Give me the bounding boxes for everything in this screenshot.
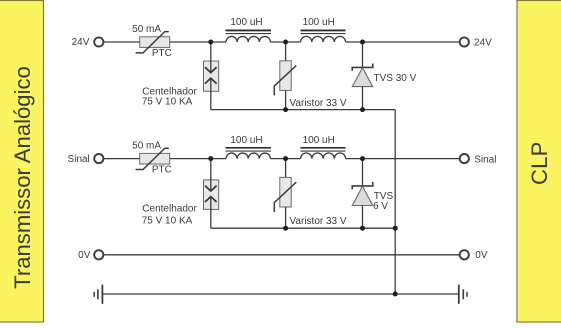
gas arrester GDT2 up arrow (205, 197, 217, 202)
gas arrester (centelhador) GDT2 body (204, 180, 219, 210)
inductor L3 core lines (226, 148, 272, 151)
wire: varistor RV1 down to rail 1 (285, 90, 287, 109)
node: rail 2 to bus junction (393, 226, 398, 231)
left panel label: Transmissor Analógico (10, 66, 35, 289)
svg-text:Varistor 33 V: Varistor 33 V (290, 216, 347, 227)
svg-text:75 V 10 KA: 75 V 10 KA (142, 96, 193, 107)
svg-text:0V: 0V (475, 250, 488, 261)
varistor RV1 body (280, 61, 291, 91)
svg-text:75 V 10 KA: 75 V 10 KA (142, 215, 193, 226)
left panel (Transmissor Analógico band) (0, 1, 44, 323)
node: C1 junction (360, 40, 365, 45)
wire: node C2 to Sinal right terminal (346, 158, 460, 160)
right panel (CLP band) (517, 1, 561, 323)
label 100 uH (L2) (303, 17, 335, 28)
gas arrester GDT2 down arrow (205, 186, 217, 191)
inductor L2 winding (301, 36, 346, 42)
wire: node C1 down to TVS D1 (362, 42, 364, 67)
inductor L3 winding (226, 153, 270, 159)
svg-text:100 uH: 100 uH (303, 135, 335, 146)
wire: TVS D2 down to rail 2 (362, 206, 364, 229)
svg-text:Sinal: Sinal (474, 154, 496, 165)
svg-text:PTC: PTC (152, 48, 172, 59)
wire: vertical ground bus (394, 110, 396, 294)
label PTC (F2) (152, 165, 172, 176)
label 75 V 10 KA (GDT1) line 2 (142, 96, 193, 107)
wire: node A1 down to gas arrester GDT1 (210, 42, 212, 72)
svg-text:50 mA: 50 mA (132, 141, 161, 152)
label Centelhador (GDT1) line 1 (142, 86, 197, 97)
label 6 V (D2) line 2 (373, 201, 388, 212)
label Varistor 33 V (RV2) (290, 216, 347, 227)
inductor L1 core lines (226, 30, 272, 33)
gas arrester GDT1 down arrow (205, 67, 217, 72)
wire: 0V line (104, 254, 460, 256)
label Varistor 33 V (RV1) (290, 98, 347, 109)
wire: node C2 down to TVS D2 (362, 159, 364, 186)
TVS D1 triangle (352, 68, 372, 87)
wire: 24V terminal to PTC F1 (104, 41, 141, 43)
label 24V right (474, 37, 492, 48)
TVS D2 cathode bar (zener) (352, 182, 373, 189)
label Sinal left (68, 154, 90, 165)
label 24V left (72, 37, 90, 48)
svg-text:Centelhador: Centelhador (142, 203, 197, 214)
inductor L4 winding (301, 153, 346, 159)
varistor RV2 body (280, 177, 291, 207)
wire: TVS D1 down to rail 1 (362, 87, 364, 110)
node: B2 junction (283, 156, 288, 161)
label 50 mA (F2) (132, 141, 161, 152)
node: B1 junction (283, 40, 288, 45)
wire: GDT1 down to rail 1 corner (210, 79, 212, 110)
wire: L3 to node B2 (270, 158, 300, 160)
TVS D1 cathode bar (zener) (352, 64, 373, 71)
svg-text:24V: 24V (474, 37, 492, 48)
svg-text:CLP: CLP (527, 141, 552, 185)
PTC fuse F1 body (140, 37, 170, 48)
varistor RV2 diagonal stroke (274, 182, 296, 212)
label 100 uH (L4) (303, 135, 335, 146)
wire: node C1 to 24V right terminal (346, 41, 460, 43)
label TVS (D2) line 1 (374, 191, 394, 202)
wire: varistor RV2 down to rail 2 (285, 207, 287, 228)
svg-text:100 uH: 100 uH (230, 135, 262, 146)
right panel label: CLP (527, 141, 552, 185)
wire: ground rail of row 2 (211, 227, 395, 229)
label PTC (F1) (152, 48, 172, 59)
wire: node B1 down to varistor RV1 (285, 42, 287, 61)
gas arrester (centelhador) GDT1 body (204, 61, 219, 91)
svg-text:100 uH: 100 uH (230, 17, 262, 28)
svg-text:50 mA: 50 mA (132, 24, 161, 35)
terminal 0V right (460, 250, 469, 259)
svg-text:24V: 24V (72, 37, 90, 48)
wire: ground rail of row 1 (211, 109, 395, 111)
terminal Sinal left (94, 154, 103, 163)
wire: L1 to node B1 (270, 41, 300, 43)
wire: Sinal terminal to PTC F2 (104, 158, 141, 160)
inductor L1 winding (226, 36, 270, 42)
PTC fuse F1 diagonal stroke (136, 32, 169, 53)
svg-text:PTC: PTC (152, 165, 172, 176)
node: bus to earth junction (393, 292, 398, 297)
TVS D2 triangle (352, 186, 372, 205)
node: RV2 to rail 2 junction (283, 226, 288, 231)
svg-text:Varistor 33 V: Varistor 33 V (290, 98, 347, 109)
node: A2 junction (208, 156, 213, 161)
label 75 V 10 KA (GDT2) line 2 (142, 215, 193, 226)
label 50 mA (F1) (132, 24, 161, 35)
svg-text:0V: 0V (78, 250, 91, 261)
label 100 uH (L3) (230, 135, 262, 146)
wire: earth line (102, 293, 458, 295)
inductor L4 core lines (301, 148, 346, 151)
wire: node A2 down to gas arrester GDT2 (210, 159, 212, 191)
label 0V right (475, 250, 488, 261)
wire: GDT2 down to rail 2 corner (210, 197, 212, 228)
ground symbol right (459, 285, 467, 304)
PTC fuse F2 body (140, 153, 170, 164)
wire: node B2 down to varistor RV2 (285, 159, 287, 178)
label TVS 30 V (D1) (374, 73, 417, 84)
inductor L2 core lines (301, 30, 346, 33)
svg-text:100 uH: 100 uH (303, 17, 335, 28)
label 0V left (78, 250, 91, 261)
node: RV1 to rail 1 junction (283, 107, 288, 112)
terminal 0V left (94, 250, 103, 259)
wire: PTC F2 to node A2 (170, 158, 226, 160)
svg-text:Sinal: Sinal (68, 154, 90, 165)
terminal 24V left (94, 37, 103, 46)
label Sinal right (474, 154, 496, 165)
label Centelhador (GDT2) line 1 (142, 203, 197, 214)
node: C2 junction (360, 156, 365, 161)
terminal Sinal right (460, 154, 469, 163)
svg-text:6 V: 6 V (373, 201, 388, 212)
svg-text:Transmissor Analógico: Transmissor Analógico (10, 66, 35, 289)
node: A1 junction (208, 40, 213, 45)
wire: PTC F1 to node A1 (170, 41, 226, 43)
svg-text:TVS 30 V: TVS 30 V (374, 73, 417, 84)
ground symbol left (94, 285, 102, 304)
node: D2 to rail 2 junction (360, 226, 365, 231)
varistor RV1 diagonal stroke (274, 66, 296, 96)
node: D1 to rail 1 junction (360, 107, 365, 112)
label 100 uH (L1) (230, 17, 262, 28)
gas arrester GDT1 up arrow (205, 78, 217, 83)
terminal 24V right (460, 37, 469, 46)
PTC fuse F2 diagonal stroke (136, 148, 169, 169)
